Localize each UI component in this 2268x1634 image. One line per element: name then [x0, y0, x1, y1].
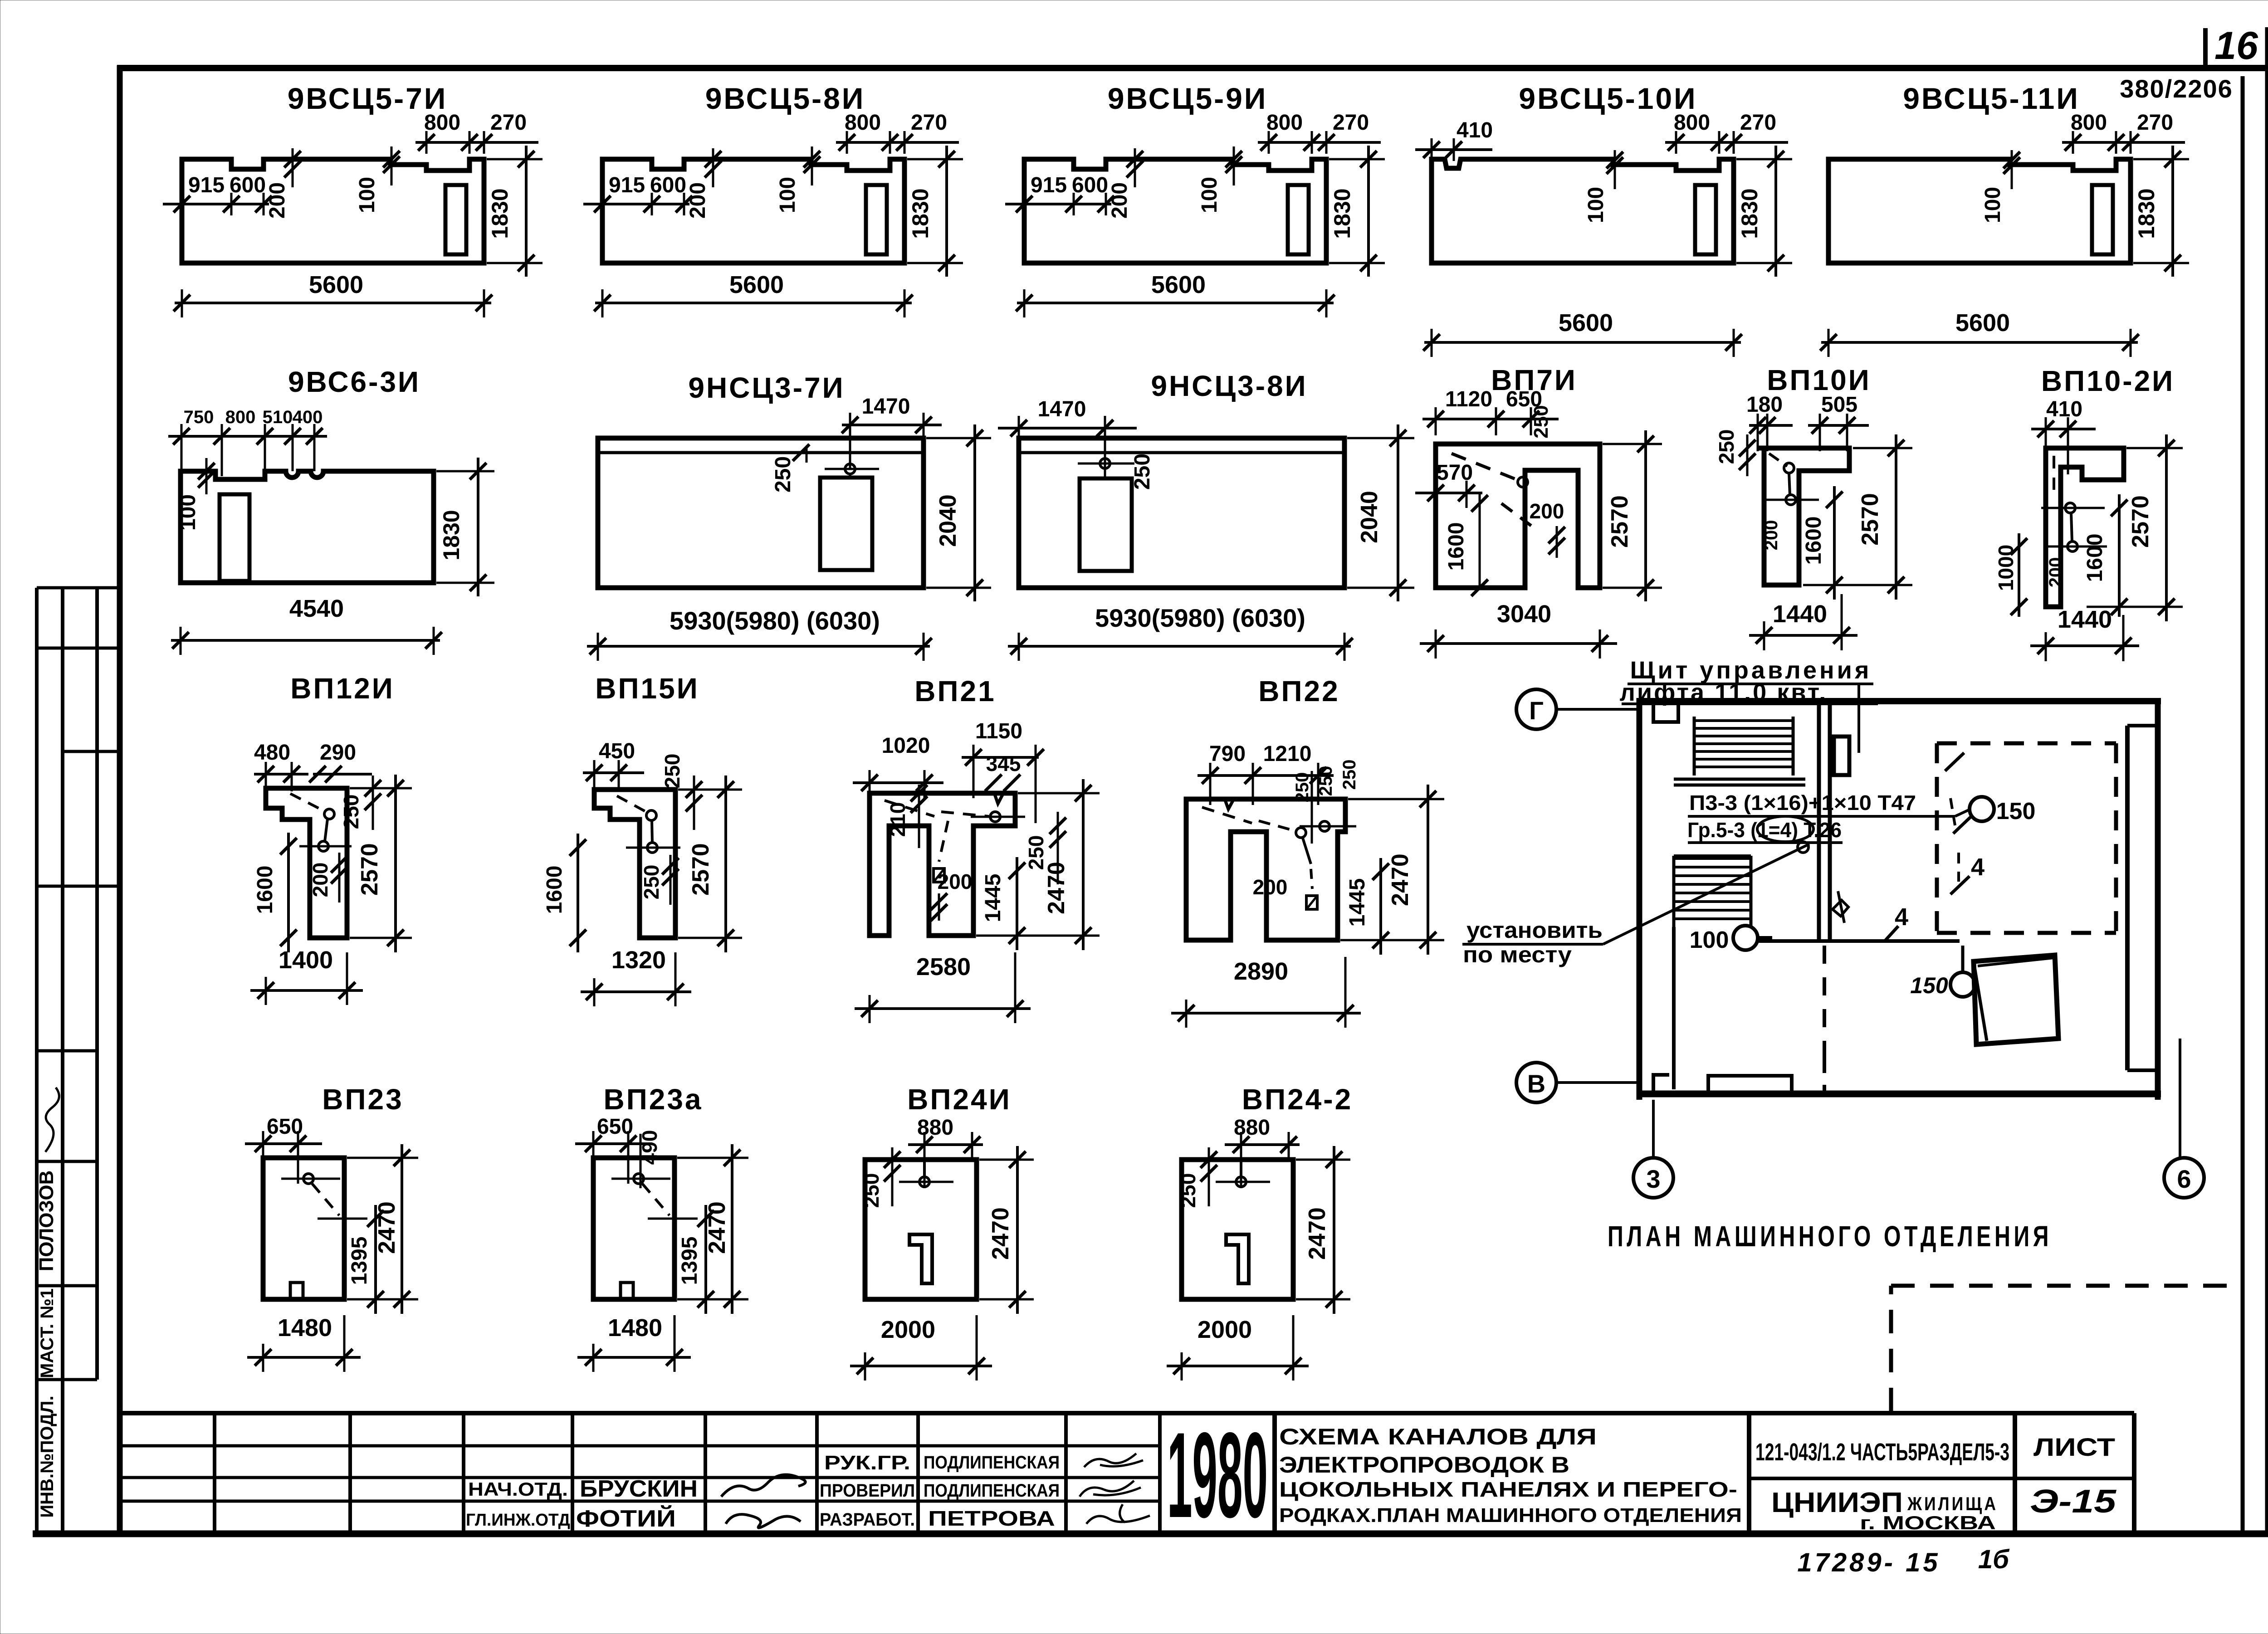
svg-text:2890: 2890	[1234, 958, 1288, 985]
svg-text:4: 4	[1971, 854, 1984, 881]
svg-text:1830: 1830	[487, 188, 513, 239]
svg-text:410: 410	[2046, 397, 2082, 421]
svg-text:345: 345	[986, 752, 1021, 776]
svg-text:100: 100	[1981, 187, 2005, 223]
svg-text:5600: 5600	[1955, 309, 2010, 337]
svg-text:2470: 2470	[1304, 1207, 1330, 1260]
svg-text:450: 450	[599, 739, 635, 763]
svg-text:9ВСЦ5-8И: 9ВСЦ5-8И	[705, 82, 865, 115]
svg-text:ЖИЛИЩА: ЖИЛИЩА	[1907, 1493, 1998, 1514]
svg-text:800: 800	[1266, 111, 1303, 135]
svg-text:6: 6	[2177, 1165, 2191, 1193]
svg-text:1400: 1400	[279, 946, 333, 974]
svg-text:ВП21: ВП21	[914, 675, 996, 707]
svg-text:570: 570	[1437, 461, 1473, 485]
svg-text:2470: 2470	[704, 1201, 730, 1254]
svg-text:1830: 1830	[439, 510, 464, 560]
svg-text:100: 100	[776, 177, 800, 213]
svg-text:1210: 1210	[1263, 742, 1312, 766]
svg-text:1000: 1000	[1994, 545, 2018, 591]
svg-text:1480: 1480	[278, 1314, 332, 1341]
svg-text:250: 250	[1339, 760, 1359, 790]
svg-text:5600: 5600	[1151, 271, 1206, 298]
svg-text:880: 880	[1234, 1116, 1270, 1140]
svg-text:2470: 2470	[374, 1201, 400, 1254]
svg-text:16: 16	[2214, 24, 2258, 68]
svg-text:5930(5980) (6030): 5930(5980) (6030)	[1095, 604, 1305, 632]
svg-text:1440: 1440	[1773, 600, 1827, 628]
svg-text:ВП12И: ВП12И	[290, 672, 394, 705]
svg-text:2470: 2470	[987, 1207, 1014, 1260]
svg-text:В: В	[1527, 1069, 1545, 1098]
svg-text:Э-15: Э-15	[2030, 1483, 2116, 1520]
svg-text:по месту: по месту	[1463, 942, 1572, 967]
svg-text:400: 400	[293, 407, 323, 427]
svg-text:1830: 1830	[1330, 188, 1355, 239]
svg-text:800: 800	[2071, 111, 2107, 135]
svg-text:9ВСЦ5-10И: 9ВСЦ5-10И	[1519, 82, 1697, 115]
svg-text:ВП23а: ВП23а	[604, 1083, 703, 1116]
svg-text:9ВС6-3И: 9ВС6-3И	[288, 366, 420, 398]
svg-text:600: 600	[650, 173, 686, 197]
svg-text:200: 200	[308, 863, 332, 897]
svg-text:РОДКАХ.ПЛАН МАШИННОГО ОТДЕЛЕНИ: РОДКАХ.ПЛАН МАШИННОГО ОТДЕЛЕНИЯ	[1279, 1504, 1742, 1527]
svg-text:2040: 2040	[935, 494, 961, 547]
svg-text:ЦОКОЛЬНЫХ ПАНЕЛЯХ И ПЕРЕГО-: ЦОКОЛЬНЫХ ПАНЕЛЯХ И ПЕРЕГО-	[1279, 1478, 1737, 1501]
svg-text:ПЕТРОВА: ПЕТРОВА	[928, 1507, 1055, 1530]
svg-text:РАЗРАБОТ.: РАЗРАБОТ.	[820, 1510, 915, 1530]
svg-text:г. МОСКВА: г. МОСКВА	[1860, 1512, 1996, 1533]
svg-text:ПОДЛИПЕНСКАЯ: ПОДЛИПЕНСКАЯ	[924, 1481, 1060, 1501]
svg-text:1980: 1980	[1167, 1407, 1268, 1543]
svg-text:200: 200	[1108, 182, 1132, 219]
svg-text:100: 100	[1584, 187, 1608, 223]
svg-text:1445: 1445	[1345, 878, 1369, 927]
svg-text:1150: 1150	[975, 719, 1022, 743]
svg-text:1830: 1830	[908, 188, 933, 239]
svg-text:915: 915	[188, 173, 225, 197]
svg-text:250: 250	[1715, 429, 1738, 464]
svg-text:2570: 2570	[357, 843, 383, 896]
svg-text:1480: 1480	[608, 1314, 662, 1341]
svg-text:5930(5980) (6030): 5930(5980) (6030)	[670, 606, 880, 635]
svg-text:270: 270	[2137, 111, 2173, 135]
svg-text:600: 600	[230, 173, 266, 197]
svg-text:1020: 1020	[882, 734, 930, 758]
svg-text:ПОДЛИПЕНСКАЯ: ПОДЛИПЕНСКАЯ	[924, 1453, 1060, 1473]
svg-text:ПОЛОЗОВ: ПОЛОЗОВ	[35, 1171, 58, 1272]
svg-text:380/2206: 380/2206	[2120, 74, 2233, 103]
svg-text:2580: 2580	[916, 953, 971, 980]
svg-text:915: 915	[1031, 173, 1067, 197]
svg-text:ЭЛЕКТРОПРОВОДОК В: ЭЛЕКТРОПРОВОДОК В	[1279, 1452, 1569, 1478]
svg-text:1470: 1470	[862, 395, 910, 419]
svg-text:800: 800	[424, 111, 460, 135]
svg-text:5600: 5600	[309, 271, 363, 298]
svg-text:БРУСКИН: БРУСКИН	[580, 1476, 698, 1502]
svg-text:200: 200	[1761, 520, 1781, 551]
svg-text:ВП10И: ВП10И	[1767, 364, 1871, 396]
svg-text:250: 250	[660, 754, 684, 789]
svg-text:100: 100	[355, 177, 379, 213]
svg-text:Г: Г	[1529, 696, 1544, 725]
svg-text:250: 250	[339, 795, 363, 829]
svg-text:установить: установить	[1466, 917, 1603, 943]
svg-text:СХЕМА КАНАЛОВ ДЛЯ: СХЕМА КАНАЛОВ ДЛЯ	[1279, 1424, 1597, 1449]
svg-text:100: 100	[176, 494, 200, 531]
svg-text:1440: 1440	[2058, 606, 2112, 633]
svg-text:9ВСЦ5-11И: 9ВСЦ5-11И	[1903, 82, 2080, 115]
svg-text:1395: 1395	[678, 1237, 702, 1285]
svg-text:1320: 1320	[611, 946, 666, 974]
svg-text:1120: 1120	[1445, 387, 1492, 411]
svg-text:ВП22: ВП22	[1258, 675, 1339, 707]
svg-text:250: 250	[1176, 1173, 1200, 1208]
svg-text:510: 510	[263, 407, 293, 427]
svg-text:ФОТИЙ: ФОТИЙ	[576, 1505, 676, 1532]
svg-text:ЛИСТ: ЛИСТ	[2033, 1433, 2115, 1461]
svg-text:17289- 15: 17289- 15	[1797, 1548, 1940, 1577]
svg-text:ПРОВЕРИЛ: ПРОВЕРИЛ	[820, 1481, 915, 1501]
svg-text:2470: 2470	[1043, 862, 1070, 914]
svg-text:270: 270	[490, 111, 527, 135]
svg-text:1600: 1600	[543, 866, 567, 914]
svg-text:600: 600	[1072, 173, 1108, 197]
svg-text:800: 800	[845, 111, 881, 135]
svg-text:270: 270	[1740, 111, 1776, 135]
svg-text:2040: 2040	[1356, 491, 1383, 543]
svg-text:200: 200	[686, 182, 710, 219]
svg-text:250: 250	[1530, 405, 1552, 438]
svg-text:150: 150	[1910, 973, 1948, 998]
svg-text:3: 3	[1646, 1165, 1660, 1193]
svg-text:9НСЦ3-7И: 9НСЦ3-7И	[688, 371, 845, 404]
svg-text:3040: 3040	[1497, 600, 1551, 628]
svg-text:ВП24-2: ВП24-2	[1242, 1083, 1353, 1116]
svg-text:270: 270	[1333, 111, 1369, 135]
svg-text:ВП15И: ВП15И	[595, 672, 699, 705]
svg-text:790: 790	[1209, 742, 1246, 766]
svg-text:1600: 1600	[2083, 534, 2107, 582]
svg-text:100: 100	[1198, 177, 1222, 213]
svg-text:180: 180	[1746, 393, 1783, 417]
svg-text:2570: 2570	[1607, 495, 1633, 548]
svg-text:200: 200	[938, 870, 973, 893]
svg-text:1830: 1830	[1737, 188, 1762, 239]
svg-text:МАСТ. №1: МАСТ. №1	[37, 1288, 57, 1378]
svg-text:9ВСЦ5-7И: 9ВСЦ5-7И	[288, 82, 448, 115]
svg-text:210: 210	[886, 802, 909, 837]
svg-text:1600: 1600	[1444, 522, 1468, 571]
svg-text:250: 250	[1316, 766, 1336, 796]
svg-text:150: 150	[1996, 798, 2036, 824]
svg-text:1395: 1395	[347, 1237, 371, 1285]
svg-text:1б: 1б	[1978, 1545, 2010, 1574]
svg-text:200: 200	[1253, 875, 1288, 899]
svg-text:270: 270	[911, 111, 947, 135]
svg-text:880: 880	[917, 1116, 953, 1140]
svg-text:250: 250	[860, 1173, 883, 1208]
svg-text:9ВСЦ5-9И: 9ВСЦ5-9И	[1108, 82, 1268, 115]
svg-text:1600: 1600	[253, 866, 277, 914]
svg-text:П3-3 (1×16)+1×10 Т47: П3-3 (1×16)+1×10 Т47	[1689, 791, 1916, 815]
svg-text:100: 100	[1690, 927, 1729, 953]
svg-text:НАЧ.ОТД.: НАЧ.ОТД.	[468, 1478, 568, 1500]
svg-text:505: 505	[1821, 393, 1857, 417]
svg-text:ИНВ.№ПОДЛ.: ИНВ.№ПОДЛ.	[37, 1395, 57, 1517]
svg-text:ВП10-2И: ВП10-2И	[2041, 365, 2175, 397]
svg-text:2570: 2570	[2127, 495, 2154, 548]
svg-text:200: 200	[2046, 557, 2066, 588]
svg-text:РУК.ГР.: РУК.ГР.	[824, 1452, 910, 1474]
svg-text:ГЛ.ИНЖ.ОТД: ГЛ.ИНЖ.ОТД	[466, 1511, 570, 1530]
svg-text:1470: 1470	[1038, 397, 1086, 421]
svg-text:410: 410	[1457, 118, 1493, 142]
svg-text:290: 290	[320, 741, 356, 765]
svg-text:4540: 4540	[289, 595, 344, 622]
svg-text:2570: 2570	[1857, 493, 1883, 546]
svg-text:200: 200	[1530, 499, 1564, 523]
svg-text:ВП23: ВП23	[322, 1083, 403, 1116]
svg-text:800: 800	[1674, 111, 1710, 135]
svg-text:250: 250	[1130, 454, 1154, 490]
svg-text:2000: 2000	[1198, 1316, 1252, 1343]
svg-text:9НСЦ3-8И: 9НСЦ3-8И	[1151, 370, 1307, 402]
svg-text:ПЛАН МАШИННОГО ОТДЕЛЕНИЯ: ПЛАН МАШИННОГО ОТДЕЛЕНИЯ	[1608, 1220, 2052, 1253]
svg-text:2470: 2470	[1387, 854, 1413, 906]
svg-text:200: 200	[265, 182, 289, 219]
svg-text:2000: 2000	[881, 1316, 935, 1343]
svg-text:800: 800	[225, 407, 256, 427]
svg-text:915: 915	[609, 173, 645, 197]
svg-text:480: 480	[254, 741, 290, 765]
svg-text:750: 750	[184, 407, 214, 427]
svg-text:5600: 5600	[729, 271, 784, 298]
svg-text:1830: 1830	[2134, 188, 2159, 239]
svg-text:250: 250	[771, 456, 795, 493]
svg-text:1445: 1445	[981, 874, 1005, 922]
svg-text:250: 250	[640, 865, 663, 900]
svg-text:5600: 5600	[1559, 309, 1613, 337]
svg-text:250: 250	[1292, 772, 1312, 803]
svg-text:ВП24И: ВП24И	[907, 1083, 1011, 1116]
svg-text:121-043/1.2 ЧАСТЬ5РАЗДЕЛ5-3: 121-043/1.2 ЧАСТЬ5РАЗДЕЛ5-3	[1755, 1439, 2009, 1466]
svg-text:1600: 1600	[1802, 517, 1826, 565]
svg-text:2570: 2570	[688, 843, 714, 896]
